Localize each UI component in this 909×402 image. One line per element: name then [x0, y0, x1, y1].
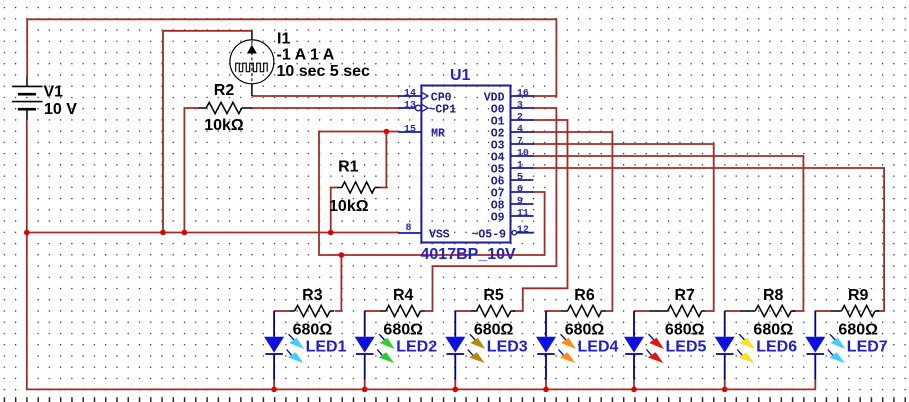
svg-text:12: 12 — [517, 225, 529, 236]
LED LED1 — [264, 311, 284, 380]
label V1 — [44, 84, 64, 101]
svg-text:R7: R7 — [674, 287, 695, 304]
wire LED5 to bottom rail — [633, 380, 635, 390]
resistor R2 — [198, 102, 252, 113]
wire LED6 column top — [725, 310, 740, 312]
label U1 — [450, 67, 471, 84]
svg-text:R3: R3 — [302, 287, 323, 304]
wire LED4 to bottom rail — [545, 380, 547, 390]
node junction (184.4,232.5) — [182, 230, 188, 236]
pin number 5 — [517, 173, 523, 184]
wire I1 bottom to pin14 CP0 — [252, 95, 400, 97]
svg-text:680Ω: 680Ω — [838, 321, 878, 338]
value 10kΩ (R2) — [204, 117, 244, 134]
pin name CP0 — [431, 92, 452, 105]
pin 8 stub — [398, 232, 421, 234]
pin number 12 — [517, 225, 529, 236]
LED LED7 light arrows — [828, 334, 846, 363]
wire R2 right to pin13 ~CP1 — [252, 107, 400, 109]
svg-text:R5: R5 — [483, 287, 504, 304]
wire LED2 to bottom rail — [364, 380, 366, 390]
pin name O1 — [491, 116, 505, 129]
LED LED7 — [805, 311, 825, 380]
label R2 — [214, 82, 235, 99]
wire O4 pin10 to R8 — [532, 156, 803, 311]
pin name O3 — [491, 140, 505, 153]
wire R1 right to MR net — [380, 132, 387, 188]
pin 13 inversion bubble — [415, 105, 421, 111]
resistor R3 — [289, 305, 334, 316]
LED LED4 light arrows — [559, 334, 577, 363]
svg-text:~CP1: ~CP1 — [429, 104, 457, 117]
node junction (546.0,389.4) — [543, 387, 549, 393]
pin number 4 — [517, 125, 523, 136]
svg-text:8: 8 — [405, 223, 411, 234]
node junction (274.1,389.4) — [271, 387, 277, 393]
pin 15 stub — [398, 131, 421, 133]
svg-text:10 V: 10 V — [44, 101, 77, 118]
svg-text:I1: I1 — [277, 30, 290, 47]
pin 14 clock wedge — [421, 92, 428, 100]
resistor R4 — [380, 305, 425, 316]
svg-text:3: 3 — [517, 101, 523, 112]
resistor R8 — [740, 305, 796, 316]
wire LED3 to bottom rail — [454, 380, 456, 390]
node junction (330.7,232.5) — [328, 230, 334, 236]
svg-text:~O5-9: ~O5-9 — [472, 228, 507, 241]
wire O7 net drop to R3 — [335, 255, 342, 311]
pin number 10 — [517, 149, 529, 160]
wire LED1 column top — [274, 310, 289, 312]
pin number 1 — [517, 161, 523, 172]
resistor R7 — [649, 305, 706, 316]
label R6 — [574, 287, 595, 304]
pin 11 stub — [511, 215, 534, 217]
svg-text:LED4: LED4 — [578, 339, 619, 356]
pin name MR — [431, 128, 445, 141]
wire MR net: pin15 to O7 loop — [319, 132, 545, 256]
svg-text:9: 9 — [517, 197, 523, 208]
svg-text:16: 16 — [517, 89, 529, 100]
wire O1 pin2 to R5 — [513, 120, 568, 311]
svg-text:LED6: LED6 — [756, 339, 797, 356]
LED LED2 light arrows — [377, 334, 395, 363]
svg-text:14: 14 — [404, 89, 416, 100]
pin name VDD — [484, 92, 505, 105]
pin 6 stub — [511, 191, 534, 193]
value -1 A 1 A — [277, 47, 335, 64]
value 680Ω (R6) — [565, 321, 605, 338]
svg-text:R8: R8 — [763, 287, 784, 304]
svg-text:680Ω: 680Ω — [293, 321, 333, 338]
label 4017BP_10V — [421, 246, 517, 263]
resistor R9 — [830, 305, 879, 316]
svg-text:15: 15 — [404, 125, 416, 136]
label LED5 — [666, 339, 707, 356]
svg-text:LED2: LED2 — [396, 339, 437, 356]
node junction (634.0,389.4) — [631, 387, 637, 393]
node junction (163,232.5) — [160, 230, 166, 236]
svg-text:6: 6 — [517, 185, 523, 196]
wire O5 pin1 to R9 — [532, 168, 884, 311]
svg-text:4: 4 — [517, 125, 523, 136]
svg-text:MR: MR — [431, 128, 445, 141]
svg-text:680Ω: 680Ω — [474, 321, 514, 338]
svg-text:680Ω: 680Ω — [565, 321, 605, 338]
pin name O7 — [491, 188, 505, 201]
wire R1 left to ground — [331, 188, 337, 233]
LED LED5 — [624, 311, 644, 380]
pin number 11 — [517, 209, 529, 220]
wire LED7 column top — [815, 310, 830, 312]
value 680Ω (R3) — [293, 321, 333, 338]
svg-text:10 sec 5 sec: 10 sec 5 sec — [277, 63, 371, 80]
svg-text:VSS: VSS — [429, 229, 450, 242]
pin 12 inversion bubble — [512, 231, 516, 235]
pin 13 clock wedge — [421, 104, 428, 112]
pin number 13 — [404, 101, 416, 112]
current source I1 — [230, 31, 274, 96]
svg-text:680Ω: 680Ω — [665, 321, 705, 338]
wire O3 pin7 to R7 — [532, 144, 714, 311]
pin name O2 — [491, 128, 505, 141]
pin 12 stub — [517, 232, 534, 234]
pin 5 stub — [511, 179, 534, 181]
wire LED5 column top — [634, 310, 649, 312]
node junction (364.7,389.4) — [362, 387, 368, 393]
label LED2 — [396, 339, 437, 356]
node junction (724.7,389.4) — [722, 387, 728, 393]
pin 14 stub — [398, 95, 421, 97]
pin number 15 — [404, 125, 416, 136]
svg-text:O9: O9 — [491, 212, 505, 225]
svg-text:R4: R4 — [393, 287, 414, 304]
wire O0 pin3 to R4 — [424, 108, 556, 311]
label LED7 — [847, 339, 888, 356]
wire R2 left to ground — [184, 108, 198, 233]
LED LED5 light arrows — [647, 334, 665, 363]
pin name O6 — [491, 176, 505, 189]
pin name O9 — [491, 212, 505, 225]
pin number 3 — [517, 101, 523, 112]
node junction (26.8,232.5) — [24, 230, 30, 236]
svg-text:R9: R9 — [848, 287, 869, 304]
label I1 — [277, 30, 290, 47]
value 10kΩ (R1) — [329, 198, 369, 215]
value 680Ω (R5) — [474, 321, 514, 338]
svg-text:2: 2 — [517, 113, 523, 124]
label LED1 — [306, 339, 347, 356]
LED LED2 — [355, 311, 375, 380]
LED LED1 light arrows — [287, 334, 305, 363]
pin number 16 — [517, 89, 529, 100]
wire LED1 to bottom rail — [273, 380, 275, 390]
svg-text:U1: U1 — [450, 67, 471, 84]
resistor R5 — [470, 305, 515, 316]
wire VSS ground bus to pin8 — [27, 232, 399, 234]
pin 10 stub — [511, 155, 534, 157]
pin 9 stub — [511, 203, 534, 205]
svg-text:680Ω: 680Ω — [383, 321, 423, 338]
wire LED4 column top — [546, 310, 561, 312]
svg-text:LED5: LED5 — [666, 339, 707, 356]
pin name O8 — [491, 200, 505, 213]
svg-text:13: 13 — [404, 101, 416, 112]
pin 13 stub — [398, 107, 421, 109]
op-amp U1 4017 counter body — [421, 86, 510, 243]
svg-text:1: 1 — [517, 161, 523, 172]
svg-text:LED7: LED7 — [847, 339, 888, 356]
svg-text:10kΩ: 10kΩ — [204, 117, 244, 134]
pin name ~CP1 — [429, 104, 457, 117]
pin 3 stub — [511, 107, 534, 109]
pin name VSS — [429, 229, 450, 242]
pin name O5 — [491, 164, 505, 177]
pin 7 stub — [511, 143, 534, 145]
label R7 — [674, 287, 695, 304]
svg-text:R2: R2 — [214, 82, 235, 99]
label LED3 — [487, 339, 528, 356]
value 10 sec 5 sec — [277, 63, 371, 80]
svg-text:7: 7 — [517, 137, 523, 148]
wire O2 pin4 to R6 — [532, 132, 612, 311]
label LED4 — [578, 339, 619, 356]
LED LED3 light arrows — [468, 334, 486, 363]
pin number 7 — [517, 137, 523, 148]
resistor R1 — [337, 182, 380, 193]
wire VDD top rail: battery+ to pin16 — [27, 19, 556, 96]
svg-text:-1 A 1 A: -1 A 1 A — [277, 47, 335, 64]
bottom grid dash row — [0, 397, 909, 402]
value 680Ω (R8) — [753, 321, 793, 338]
battery V1 — [12, 76, 43, 119]
wire LED6 to bottom rail — [724, 380, 726, 390]
svg-text:R1: R1 — [338, 158, 359, 175]
label R8 — [763, 287, 784, 304]
label R9 — [848, 287, 869, 304]
pin number 2 — [517, 113, 523, 124]
svg-text:10kΩ: 10kΩ — [329, 198, 369, 215]
svg-text:5: 5 — [517, 173, 523, 184]
wire left rail battery- down and bottom rail — [27, 120, 816, 390]
pin number 6 — [517, 185, 523, 196]
value 10 V — [44, 101, 77, 118]
svg-text:10: 10 — [517, 149, 529, 160]
wire LED3 column top — [455, 310, 470, 312]
svg-text:R6: R6 — [574, 287, 595, 304]
LED LED6 light arrows — [737, 334, 755, 363]
svg-text:LED3: LED3 — [487, 339, 528, 356]
node junction (341.4,255) — [339, 252, 345, 258]
svg-text:LED1: LED1 — [306, 339, 347, 356]
pin number 8 — [405, 223, 411, 234]
pin name ~O5-9 — [472, 228, 507, 241]
LED LED6 — [715, 311, 735, 380]
node junction (386.4,131.5) — [384, 129, 390, 135]
label R3 — [302, 287, 323, 304]
pin 4 stub — [511, 131, 534, 133]
pin 2 stub — [511, 119, 534, 121]
label R1 — [338, 158, 359, 175]
resistor R6 — [561, 305, 606, 316]
label LED6 — [756, 339, 797, 356]
svg-text:11: 11 — [517, 209, 529, 220]
value 680Ω (R9) — [838, 321, 878, 338]
wire I1 top to ground rail — [163, 31, 252, 233]
pin 16 stub — [511, 95, 534, 97]
pin 1 stub — [511, 167, 534, 169]
wire LED7 to bottom rail — [814, 380, 816, 390]
label R4 — [393, 287, 414, 304]
pin number 9 — [517, 197, 523, 208]
label R5 — [483, 287, 504, 304]
value 680Ω (R4) — [383, 321, 423, 338]
svg-text:680Ω: 680Ω — [753, 321, 793, 338]
pin name O4 — [491, 152, 505, 165]
svg-text:V1: V1 — [44, 84, 64, 101]
svg-text:4017BP_10V: 4017BP_10V — [421, 246, 517, 263]
pin number 14 — [404, 89, 416, 100]
wire LED2 column top — [365, 310, 380, 312]
pin name O0 — [491, 104, 505, 117]
LED LED4 — [536, 311, 556, 380]
value 680Ω (R7) — [665, 321, 705, 338]
LED LED3 — [445, 311, 465, 380]
node junction (455.3,389.4) — [453, 387, 459, 393]
